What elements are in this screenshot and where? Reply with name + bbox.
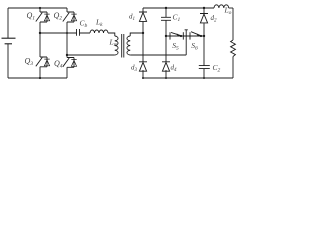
- svg-text:d3: d3: [131, 64, 138, 74]
- svg-text:S6: S6: [191, 41, 198, 52]
- svg-text:C2: C2: [213, 63, 221, 74]
- svg-text:Q2: Q2: [54, 11, 63, 22]
- svg-text:Q3: Q3: [25, 57, 34, 68]
- svg-text:S5: S5: [172, 41, 179, 52]
- svg-text:Lm: Lm: [109, 38, 118, 49]
- svg-text:Lo: Lo: [224, 6, 232, 17]
- svg-text:d1: d1: [129, 13, 135, 23]
- svg-text:Q4: Q4: [54, 59, 63, 70]
- svg-text:Q1: Q1: [27, 11, 36, 22]
- svg-text:d2: d2: [211, 14, 218, 24]
- svg-text:d4: d4: [171, 64, 178, 74]
- svg-text:Cb: Cb: [80, 19, 88, 30]
- svg-text:C1: C1: [173, 13, 181, 24]
- svg-text:Lk: Lk: [95, 18, 103, 29]
